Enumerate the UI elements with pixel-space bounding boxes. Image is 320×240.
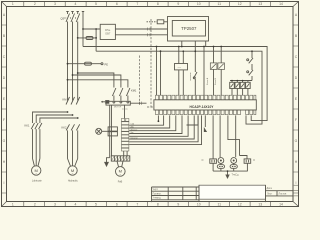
svg-text:Дата: Дата: [267, 187, 273, 190]
svg-text:Abc: Abc: [131, 126, 134, 129]
svg-text:включ: включ: [122, 109, 128, 111]
svg-text:ТчкСд: ТчкСд: [232, 173, 239, 176]
svg-text:I: I: [296, 181, 297, 185]
svg-text:KK1: KK1: [25, 124, 30, 128]
svg-text:PE: PE: [105, 63, 109, 67]
svg-text:10: 10: [197, 203, 201, 207]
svg-text:1: 1: [12, 2, 14, 6]
svg-text:5: 5: [95, 203, 97, 207]
svg-text:QS: QS: [61, 17, 65, 21]
svg-text:3: 3: [54, 203, 56, 207]
svg-text:13: 13: [258, 203, 262, 207]
svg-text:Утверд.: Утверд.: [153, 197, 162, 200]
svg-text:Apower: Apower: [131, 128, 138, 131]
svg-text:G: G: [295, 139, 298, 143]
svg-text:D5e: D5e: [105, 28, 111, 32]
svg-text:Черт.: Черт.: [153, 188, 159, 191]
svg-text:2: 2: [34, 2, 36, 6]
svg-text:F: F: [3, 118, 5, 122]
svg-text:6: 6: [116, 2, 118, 6]
svg-text:Фаза А: Фаза А: [206, 77, 209, 85]
svg-text:12: 12: [238, 2, 242, 6]
svg-text:7: 7: [136, 203, 138, 207]
svg-text:F: F: [295, 118, 297, 122]
svg-text:10: 10: [197, 2, 201, 6]
svg-text:питание: питание: [190, 72, 192, 81]
svg-text:2: 2: [34, 203, 36, 207]
svg-text:⎓⎓: ⎓⎓: [178, 67, 182, 69]
svg-text:TP2507: TP2507: [181, 26, 197, 31]
svg-text:KK2: KK2: [62, 126, 67, 130]
svg-text:Провер.: Провер.: [153, 192, 162, 195]
svg-text:G: G: [3, 139, 6, 143]
svg-text:Лист: Лист: [267, 193, 273, 196]
svg-text:HCA2P-14X10Y: HCA2P-14X10Y: [189, 105, 214, 109]
svg-text:Inductor: Inductor: [131, 137, 139, 140]
svg-text:14: 14: [279, 203, 283, 207]
svg-text:12: 12: [238, 203, 242, 207]
svg-text:KM1: KM1: [131, 89, 137, 93]
svg-text:14: 14: [279, 2, 283, 6]
svg-text:Фаза В: Фаза В: [214, 77, 217, 85]
svg-text:11: 11: [218, 2, 222, 6]
svg-text:6: 6: [116, 203, 118, 207]
svg-text:РиВ: РиВ: [118, 181, 123, 184]
svg-text:4: 4: [75, 2, 77, 6]
svg-text:5: 5: [95, 2, 97, 6]
svg-text:Hydraulic: Hydraulic: [68, 180, 79, 183]
svg-text:8: 8: [157, 203, 159, 207]
svg-text:Листов: Листов: [279, 193, 287, 196]
svg-text:13: 13: [258, 2, 262, 6]
svg-text:3: 3: [54, 2, 56, 6]
svg-text:9: 9: [177, 2, 179, 6]
svg-text:1: 1: [12, 203, 14, 207]
svg-text:GB7: GB7: [105, 32, 111, 36]
svg-text:МОТОР: МОТОР: [114, 107, 122, 109]
svg-text:8: 8: [157, 2, 159, 6]
svg-text:7: 7: [136, 2, 138, 6]
svg-text:4: 4: [75, 203, 77, 207]
svg-text:Lubricate: Lubricate: [32, 180, 43, 183]
svg-text:I: I: [4, 181, 5, 185]
svg-text:9: 9: [177, 203, 179, 207]
svg-text:KM: KM: [63, 98, 67, 102]
svg-text:11: 11: [218, 203, 222, 207]
